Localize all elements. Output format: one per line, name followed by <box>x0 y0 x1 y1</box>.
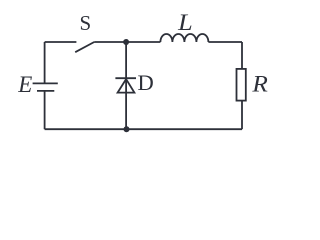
svg-text:D: D <box>137 70 153 95</box>
diode D cathode bar <box>115 77 136 79</box>
svg-text:R: R <box>251 72 268 98</box>
inductor L <box>160 34 208 42</box>
wire inductor to top-right corner <box>208 41 242 43</box>
svg-text:L: L <box>177 11 193 36</box>
wire left side lower <box>44 91 46 129</box>
battery E top plate <box>33 82 58 84</box>
node junction top <box>123 39 129 45</box>
wire switch to inductor <box>94 41 160 43</box>
wire bottom <box>45 128 242 130</box>
wire right side upper <box>241 42 243 69</box>
wire left side upper <box>44 42 46 83</box>
node junction bottom <box>124 126 130 132</box>
wire diode branch vertical <box>125 42 127 129</box>
svg-text:E: E <box>17 72 32 97</box>
wire right side lower <box>241 101 243 130</box>
switch S blade <box>75 42 94 52</box>
battery E bottom plate <box>37 90 54 92</box>
resistor R box <box>237 69 246 101</box>
diode D triangle <box>118 79 135 93</box>
wire top-left segment <box>45 41 77 43</box>
svg-text:S: S <box>80 11 92 35</box>
